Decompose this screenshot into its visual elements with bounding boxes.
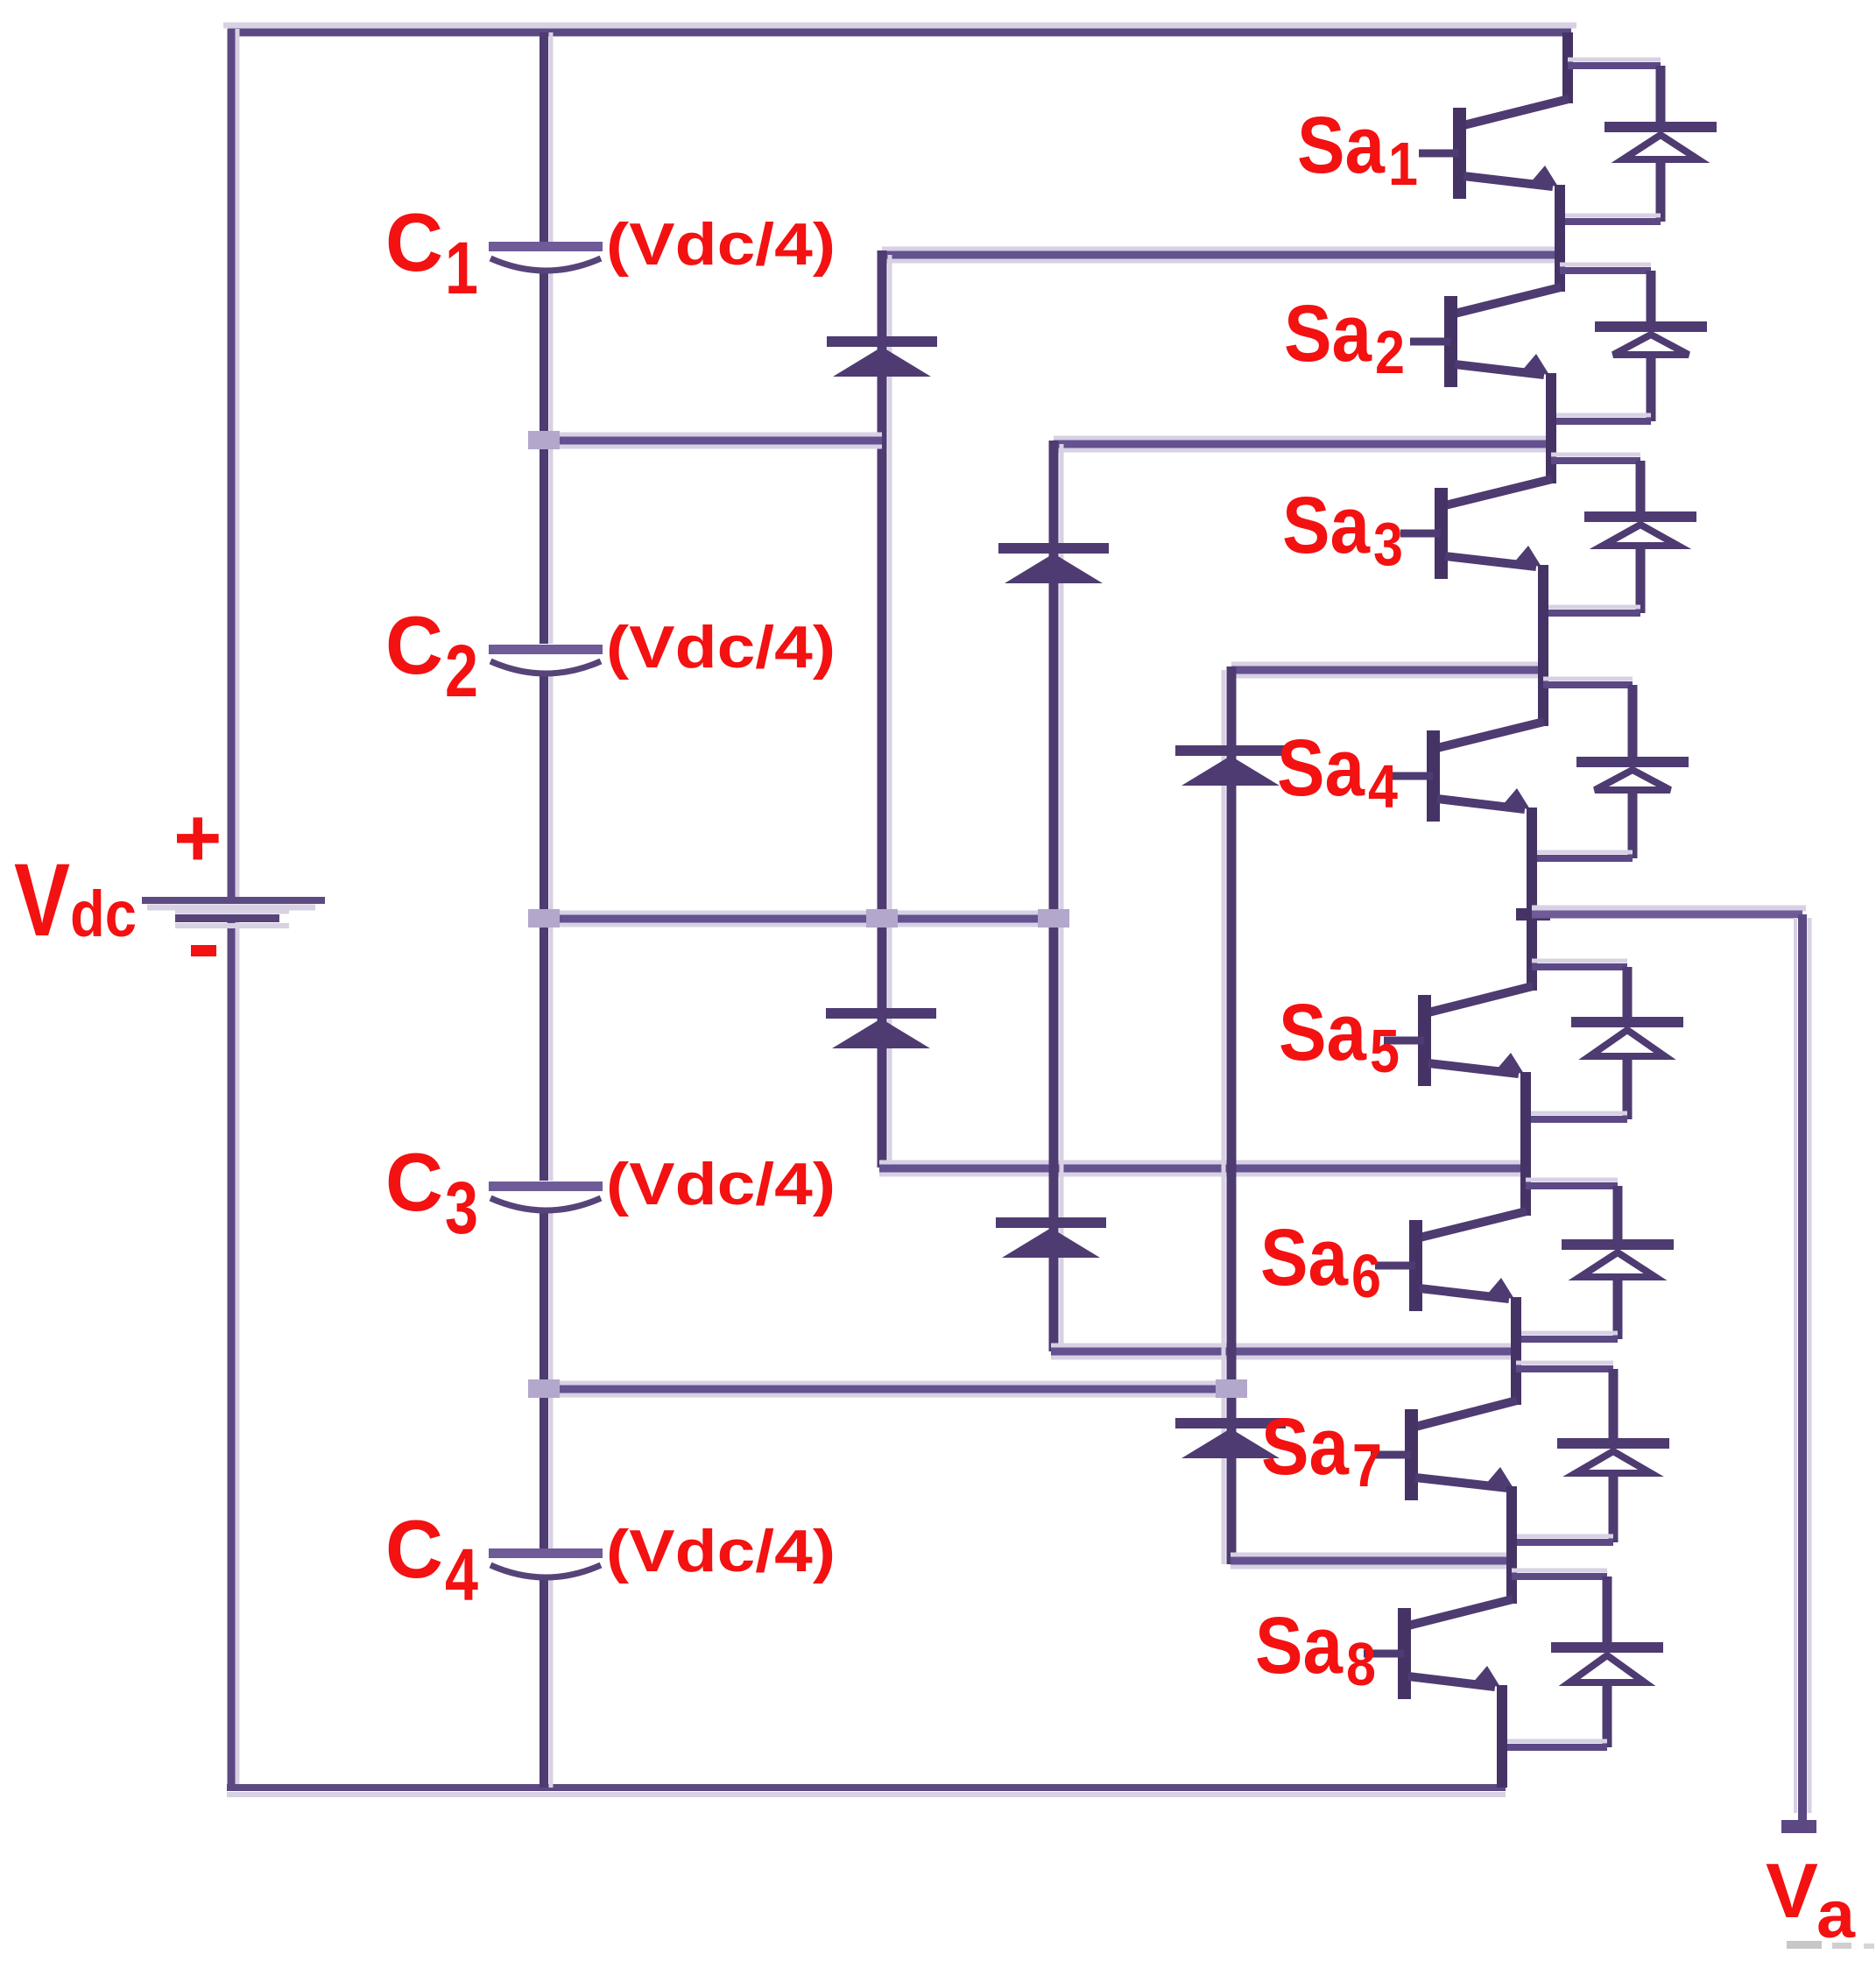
free-wheeling diode of Sa8: anode wire — [1603, 1684, 1612, 1747]
free-wheeling diode of Sa7: cathode wire — [1609, 1369, 1619, 1443]
svg-text:(Vdc/4): (Vdc/4) — [606, 1151, 836, 1217]
svg-text:Sa: Sa — [1260, 1213, 1349, 1302]
free-wheeling diode of Sa6: cathode bar — [1562, 1239, 1674, 1250]
transistor Sa8 gate lead — [1364, 1650, 1404, 1658]
wire: j7 line from chain C bottom to Sa7/Sa8 junction — [1231, 1553, 1516, 1558]
free-wheeling diode of Sa2: anode wire — [1647, 356, 1656, 421]
wire: n1 tap from capacitor bus to chain A — [544, 433, 882, 438]
free-wheeling diode of Sa8: triangle — [1569, 1655, 1645, 1682]
free-wheeling diode of Sa1: top stub — [1568, 58, 1661, 62]
wire: clamp line chain C top to j3 (Sa3/Sa4 junction) — [1231, 662, 1545, 667]
wire: left battery vertical lower — [236, 920, 240, 1784]
wire: bottom DC- rail — [227, 1784, 1506, 1791]
transistor Sa3 collector lead — [1445, 479, 1552, 505]
free-wheeling diode of Sa3: top stub — [1551, 453, 1640, 457]
svg-text:Sa: Sa — [1255, 1601, 1344, 1690]
wire: chain vertical into Sa2 collector — [1555, 185, 1565, 292]
transistor Sa1 gate lead — [1419, 150, 1459, 158]
wire: capacitor bus segment 2 — [549, 271, 554, 644]
svg-text:(Vdc/4): (Vdc/4) — [606, 1518, 836, 1584]
free-wheeling diode of Sa1: cathode bar — [1604, 122, 1717, 132]
svg-text:1: 1 — [445, 227, 478, 309]
transistor Sa3 base bar — [1435, 488, 1448, 579]
wire: chain vertical into Sa6 collector — [1520, 1072, 1531, 1216]
free-wheeling diode of Sa4: bottom stub — [1532, 850, 1633, 855]
transistor Sa2 emitter lead with arrow — [1455, 364, 1544, 375]
transistor Sa5 gate lead — [1384, 1037, 1424, 1045]
free-wheeling diode of Sa8: bottom stub — [1502, 1739, 1607, 1744]
transistor Sa2 base bar — [1444, 296, 1457, 387]
transistor Sa6 emitter lead with arrow — [1420, 1288, 1509, 1299]
free-wheeling diode of Sa7: anode wire — [1609, 1475, 1619, 1542]
free-wheeling diode of Sa4: top stub — [1543, 677, 1633, 681]
transistor Sa4 emitter lead with arrow — [1437, 799, 1525, 809]
transistor Sa3 gate lead — [1400, 530, 1441, 538]
node j4 output junction — [1516, 908, 1550, 921]
svg-text:V: V — [14, 843, 70, 958]
capacitor C4 (Vdc/4) — [489, 1548, 603, 1577]
free-wheeling diode of Sa7: triangle — [1576, 1451, 1651, 1473]
clamping diode DB2 — [996, 1217, 1106, 1258]
transistor Sa4 base bar — [1427, 730, 1440, 822]
svg-text:6: 6 — [1351, 1242, 1381, 1310]
node junction dot — [866, 909, 898, 928]
transistor Sa7 collector lead — [1415, 1400, 1517, 1427]
transistor Sa4 collector lead — [1437, 722, 1544, 748]
node junction dot — [528, 431, 560, 449]
transistor Sa1 emitter lead with arrow — [1463, 176, 1553, 187]
svg-text:1: 1 — [1388, 130, 1418, 198]
free-wheeling diode of Sa3: cathode wire — [1636, 461, 1646, 517]
wire: n3 tap from capacitor bus to chain C — [544, 1381, 1231, 1386]
free-wheeling diode of Sa6: bottom stub — [1516, 1331, 1618, 1336]
svg-text:4: 4 — [445, 1534, 478, 1616]
free-wheeling diode of Sa2: cathode wire — [1647, 271, 1656, 327]
wire: capacitor bus segment 3 — [549, 673, 554, 1181]
artifact gray dashes under Va — [1787, 1941, 1822, 1949]
svg-text:dc: dc — [70, 878, 137, 950]
node junction dot — [528, 1379, 560, 1398]
clamping diode DB1 — [998, 543, 1109, 583]
transistor Sa5 emitter lead with arrow — [1428, 1063, 1519, 1074]
wire: j6 line from chain B bottom to Sa6/Sa7 junction — [1051, 1344, 1518, 1349]
svg-text:C: C — [385, 1136, 443, 1228]
node junction dot — [1038, 909, 1069, 928]
node Va terminal — [1781, 1820, 1816, 1833]
svg-text:2: 2 — [445, 630, 478, 712]
free-wheeling diode of Sa4: anode wire — [1628, 792, 1638, 858]
svg-text:(Vdc/4): (Vdc/4) — [606, 211, 836, 278]
free-wheeling diode of Sa5: cathode wire — [1623, 967, 1633, 1022]
wire: top DC+ rail — [228, 29, 1571, 37]
wire: capacitor bus segment 1 — [549, 32, 554, 242]
svg-text:C: C — [385, 599, 443, 691]
transistor Sa2 collector lead — [1455, 287, 1561, 314]
free-wheeling diode of Sa4: cathode wire — [1628, 685, 1638, 762]
transistor Sa7 emitter lead with arrow — [1415, 1478, 1508, 1488]
node junction dot — [1216, 1379, 1247, 1398]
wire: clamp chain A vertical — [888, 255, 892, 1167]
transistor Sa7 base bar — [1405, 1409, 1418, 1500]
free-wheeling diode of Sa4: triangle — [1595, 770, 1670, 790]
wire: clamp chain C vertical — [1222, 670, 1226, 1564]
svg-text:Sa: Sa — [1282, 481, 1371, 570]
transistor Sa7 gate lead — [1371, 1451, 1411, 1459]
svg-text:+: + — [173, 792, 222, 885]
transistor Sa4 gate lead — [1393, 772, 1433, 780]
svg-text:V: V — [1766, 1847, 1818, 1934]
svg-text:2: 2 — [1375, 318, 1405, 386]
svg-text:Sa: Sa — [1279, 988, 1367, 1077]
capacitor C1 (Vdc/4) — [489, 242, 603, 271]
free-wheeling diode of Sa6: cathode wire — [1613, 1186, 1623, 1245]
transistor Sa6 collector lead — [1420, 1211, 1527, 1238]
battery Vdc positive long plate — [142, 897, 325, 904]
svg-text:Sa: Sa — [1277, 723, 1365, 813]
free-wheeling diode of Sa8: cathode wire — [1603, 1577, 1612, 1647]
transistor Sa1 collector lead — [1463, 99, 1569, 125]
wire: clamp line n-A to j1 (Sa1/Sa2 junction) — [882, 247, 1564, 252]
free-wheeling diode of Sa3: cathode bar — [1584, 511, 1696, 522]
wire: clamp chain B vertical — [1060, 444, 1064, 1351]
clamping diode DC2 — [1175, 1418, 1286, 1458]
capacitor C2 (Vdc/4) — [489, 645, 603, 674]
transistor Sa6 gate lead — [1375, 1262, 1415, 1270]
transistor Sa8 base bar — [1398, 1608, 1411, 1699]
wire: chain bottom vertical from Sa8 emitter to DC- rail — [1497, 1685, 1507, 1788]
svg-text:7: 7 — [1352, 1431, 1382, 1499]
svg-text:a: a — [1816, 1878, 1856, 1952]
free-wheeling diode of Sa1: bottom stub — [1560, 214, 1661, 218]
transistor Sa8 collector lead — [1408, 1599, 1513, 1626]
wire: clamp line chain B top to j2 (Sa2/Sa3 junction) — [1054, 436, 1553, 441]
free-wheeling diode of Sa2: bottom stub — [1551, 413, 1651, 418]
transistor Sa6 base bar — [1409, 1220, 1422, 1311]
clamping diode DA1 — [827, 336, 937, 377]
free-wheeling diode of Sa2: top stub — [1560, 263, 1651, 267]
free-wheeling diode of Sa7: cathode bar — [1557, 1438, 1669, 1449]
wire: chain vertical into Sa7 collector — [1511, 1297, 1521, 1405]
svg-text:C: C — [385, 1503, 443, 1595]
wire: capacitor bus segment 5 — [549, 1576, 554, 1788]
svg-text:Sa: Sa — [1284, 289, 1372, 378]
capacitor C3 (Vdc/4) — [489, 1182, 603, 1210]
free-wheeling diode of Sa8: cathode bar — [1551, 1642, 1663, 1653]
free-wheeling diode of Sa6: anode wire — [1613, 1279, 1623, 1339]
wire: chain vertical into Sa5 collector — [1527, 808, 1537, 991]
transistor Sa5 base bar — [1418, 995, 1431, 1086]
transistor Sa1 base bar — [1453, 108, 1466, 199]
transistor Sa2 gate lead — [1410, 338, 1450, 346]
node junction dot — [528, 909, 560, 928]
free-wheeling diode of Sa3: anode wire — [1636, 547, 1646, 613]
svg-text:3: 3 — [1373, 510, 1403, 578]
clamping diode DC1 — [1175, 745, 1286, 786]
svg-text:3: 3 — [445, 1167, 478, 1249]
wire: bottom rail light fringe — [227, 1792, 1506, 1797]
wire: output line shadow — [1532, 906, 1806, 912]
svg-text:8: 8 — [1346, 1630, 1376, 1698]
wire: left battery vertical upper — [236, 29, 240, 899]
free-wheeling diode of Sa5: top stub — [1532, 959, 1627, 963]
wire: chain vertical into Sa3 collector — [1546, 373, 1556, 483]
wire: chain vertical into Sa4 collector — [1538, 565, 1548, 726]
svg-text:Sa: Sa — [1261, 1402, 1350, 1492]
wire: Va vertical — [1808, 918, 1812, 1813]
wire: n2 tap from capacitor bus to chain B — [544, 911, 1054, 916]
free-wheeling diode of Sa1: cathode wire — [1656, 66, 1666, 127]
free-wheeling diode of Sa3: bottom stub — [1543, 605, 1640, 610]
free-wheeling diode of Sa5: triangle — [1590, 1030, 1665, 1056]
free-wheeling diode of Sa5: anode wire — [1623, 1058, 1633, 1119]
svg-text:(Vdc/4): (Vdc/4) — [606, 614, 836, 681]
transistor Sa5 collector lead — [1428, 986, 1533, 1012]
free-wheeling diode of Sa4: cathode bar — [1576, 757, 1689, 767]
free-wheeling diode of Sa5: cathode bar — [1571, 1017, 1683, 1027]
free-wheeling diode of Sa1: triangle — [1623, 135, 1698, 159]
transistor Sa3 emitter lead with arrow — [1445, 556, 1536, 567]
clamping diode DA2 — [826, 1008, 936, 1048]
free-wheeling diode of Sa7: top stub — [1516, 1361, 1613, 1365]
free-wheeling diode of Sa5: bottom stub — [1526, 1111, 1627, 1116]
free-wheeling diode of Sa7: bottom stub — [1515, 1534, 1613, 1539]
free-wheeling diode of Sa6: top stub — [1526, 1178, 1618, 1182]
free-wheeling diode of Sa2: cathode bar — [1595, 321, 1707, 332]
free-wheeling diode of Sa3: triangle — [1603, 525, 1678, 546]
free-wheeling diode of Sa2: triangle — [1613, 335, 1689, 355]
battery Vdc negative short plate — [175, 910, 289, 914]
svg-text:5: 5 — [1370, 1017, 1400, 1085]
svg-text:C: C — [385, 196, 443, 288]
wire: j5 line from chain A bottom to Sa5/Sa6 junction — [879, 1160, 1529, 1166]
wire: output line from j4 to Va — [1532, 911, 1802, 919]
svg-text:4: 4 — [1368, 752, 1398, 821]
free-wheeling diode of Sa6: triangle — [1580, 1252, 1655, 1277]
wire: chain vertical into Sa1 collector — [1562, 32, 1573, 103]
label - — [191, 945, 216, 956]
transistor Sa8 emitter lead with arrow — [1408, 1676, 1495, 1687]
svg-text:Sa: Sa — [1297, 101, 1386, 190]
wire: capacitor bus segment 4 — [549, 1211, 554, 1549]
free-wheeling diode of Sa8: top stub — [1512, 1569, 1607, 1573]
free-wheeling diode of Sa1: anode wire — [1656, 161, 1666, 222]
wire: chain vertical into Sa8 collector — [1506, 1486, 1517, 1604]
wire: top DC+ rail shadow — [223, 23, 1576, 29]
